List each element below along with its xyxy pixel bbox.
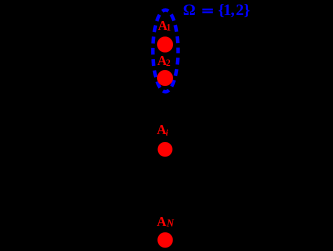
svg-text:{1,2}: {1,2} [218, 0, 250, 19]
node A1 dot [157, 37, 173, 53]
node A2 dot [157, 70, 173, 86]
dashed ellipse grouping A1 and A2 [153, 10, 178, 92]
equals sign lower bar [202, 11, 213, 13]
svg-text:Ω: Ω [183, 2, 196, 19]
node Ai dot [158, 142, 173, 157]
node AN dot [157, 232, 172, 247]
equals sign upper bar [202, 9, 213, 11]
